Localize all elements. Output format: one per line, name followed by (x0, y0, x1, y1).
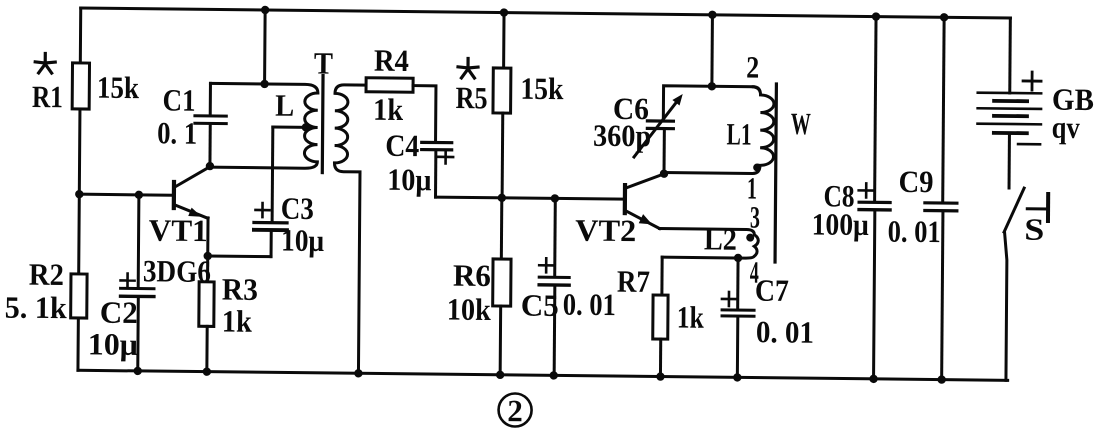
capacitor C8 (859, 202, 890, 210)
svg-text:5. 1k: 5. 1k (5, 290, 68, 326)
inductor transformer T secondary (333, 85, 366, 374)
wire switch bottom lead (1003, 232, 1007, 380)
wire bottom ground rail (78, 370, 1008, 380)
wire C6 bottom stub (663, 130, 666, 174)
node junction C8 / top rail (872, 12, 880, 20)
svg-text:VT2: VT2 (575, 213, 636, 249)
svg-text:360p: 360p (593, 118, 651, 154)
svg-text:C9: C9 (898, 164, 933, 199)
node junction R5 / top rail (500, 8, 508, 16)
svg-text:R1: R1 (32, 79, 63, 114)
node junction L2 bottom / C7 (734, 254, 742, 262)
svg-text:1k: 1k (222, 304, 253, 339)
svg-text:1k: 1k (677, 300, 705, 335)
node junction C9 / top rail (940, 13, 948, 21)
node junction C2 / ground rail (134, 367, 142, 375)
node junction R3 / ground rail (203, 367, 211, 375)
wire top supply rail (81, 8, 1011, 18)
resistor R6 (492, 198, 511, 375)
wire C7 bottom stub (736, 318, 739, 378)
svg-text:L2: L2 (704, 221, 737, 256)
svg-text:15k: 15k (97, 70, 140, 105)
wire C5 bottom stub (553, 287, 557, 376)
transistor VT2 (625, 173, 664, 228)
svg-text:10μ: 10μ (281, 223, 325, 258)
node junction left wire / base wire (75, 190, 83, 198)
star mark R5 (458, 58, 478, 78)
plus sign C4 (438, 150, 453, 163)
node junction VT2 collector / C6 / L1 (660, 169, 668, 177)
svg-text:0. 1: 0. 1 (157, 115, 197, 150)
wire tap down to C3 (271, 127, 275, 221)
svg-text:1k: 1k (373, 92, 404, 127)
svg-text:T: T (314, 45, 334, 80)
svg-text:R5: R5 (455, 80, 487, 115)
svg-text:0. 01: 0. 01 (888, 214, 941, 250)
node junction drop / C1-L wire (260, 80, 268, 88)
svg-text:VT1: VT1 (149, 213, 208, 249)
wire top rail drop to C1/L node (263, 10, 267, 84)
minus dash GB (1018, 143, 1040, 146)
svg-text:2: 2 (507, 393, 523, 428)
switch S blade (1004, 188, 1024, 232)
plus sign C2 (120, 273, 134, 287)
svg-text:S: S (1024, 212, 1044, 247)
battery GB (977, 93, 1041, 134)
node junction L1 top wire (708, 82, 716, 90)
svg-text:C2: C2 (100, 295, 138, 330)
node junction top rail / drop (261, 6, 269, 14)
node junction C8 / ground rail (869, 375, 877, 383)
wire emitter node to C3 bottom (208, 254, 271, 258)
capacitor C6 (variable) (647, 121, 673, 129)
node junction C5 / middle wire (551, 194, 559, 202)
node polarity dot L1 pin1 (753, 163, 761, 171)
svg-text:R6: R6 (453, 258, 491, 293)
capacitor C7 (722, 310, 754, 316)
figure number 2 circled (498, 393, 531, 428)
plus sign C7 (722, 292, 736, 306)
plus sign GB (1023, 72, 1041, 90)
wire C5 top stub (553, 198, 557, 275)
capacitor C3 (254, 222, 287, 230)
svg-text:C7: C7 (755, 273, 789, 308)
resistor R4 (366, 78, 413, 93)
svg-text:0. 01: 0. 01 (563, 287, 616, 323)
plus sign C5 (539, 258, 554, 272)
star mark R1 (35, 53, 55, 73)
wire C7 top stub (736, 258, 739, 309)
node junction C9 / ground rail (937, 375, 945, 383)
node junction R5 / middle wire (498, 194, 506, 202)
svg-text:0. 01: 0. 01 (756, 314, 814, 350)
svg-text:R3: R3 (222, 272, 258, 307)
wire C9 top stub (943, 17, 944, 201)
wire left vertical branch (R1/R2) (78, 8, 81, 370)
svg-text:qv: qv (1052, 110, 1081, 145)
svg-text:C5: C5 (521, 288, 559, 323)
capacitor C1 (195, 116, 226, 124)
wire battery bottom lead (1008, 133, 1011, 188)
wire C3 bottom stub (270, 232, 273, 257)
svg-text:C1: C1 (162, 82, 195, 117)
svg-text:R7: R7 (617, 264, 650, 299)
wire C2 top stub (137, 195, 141, 287)
resistor R3 (198, 256, 214, 372)
svg-text:10μ: 10μ (88, 326, 139, 362)
node junction emitter / R3 / C3 (204, 252, 212, 260)
svg-text:C4: C4 (385, 128, 419, 163)
node junction T secondary / ground rail (354, 369, 362, 377)
plus sign C8 (859, 183, 874, 197)
inductor L (transformer T primary) (210, 83, 318, 168)
wire C1 top stub (209, 83, 212, 114)
transformer T core (321, 76, 325, 173)
wire C9 bottom stub (942, 213, 943, 379)
svg-text:2: 2 (746, 50, 759, 85)
svg-text:10k: 10k (447, 292, 492, 327)
svg-text:L: L (275, 88, 294, 123)
node junction C5 / ground rail (550, 371, 558, 379)
svg-text:R2: R2 (29, 257, 64, 292)
resistor R5 (492, 12, 511, 197)
node junction C1 / collector / L bottom (206, 162, 214, 170)
wire L2 bottom corner to R7 (660, 257, 663, 295)
svg-text:15k: 15k (520, 71, 564, 106)
wire VT1 emitter vertical (206, 218, 209, 256)
transistor VT1 (174, 166, 210, 218)
svg-text:W: W (791, 106, 811, 141)
capacitor C4 (422, 142, 452, 150)
node junction C7 / ground rail (733, 373, 741, 381)
capacitor C9 (925, 203, 957, 211)
wire C2 bottom stub (136, 298, 140, 371)
node junction R7 / ground rail (656, 372, 664, 380)
wire top rail drop to L1 (710, 15, 714, 87)
resistor R7 (652, 295, 668, 377)
wire R4 to C4 corner (413, 86, 436, 141)
node junction R6 / ground rail (496, 371, 504, 379)
capacitor C5 (539, 277, 569, 285)
node junction top rail / L1 drop (708, 11, 716, 19)
wire battery top lead (1008, 18, 1012, 93)
svg-text:R4: R4 (374, 43, 409, 78)
resistor R1 (72, 63, 89, 109)
wire C1 bottom stub (208, 125, 211, 166)
node polarity dot L2 pin3 (746, 234, 754, 242)
switch S contact tick (1027, 194, 1048, 221)
plus sign C3 (255, 203, 269, 217)
wire middle bias wire (436, 197, 624, 199)
inductor L1 (664, 86, 774, 174)
wire VT1 base wire (79, 193, 172, 197)
wire C8 top stub (875, 17, 876, 201)
inductor L2 (659, 229, 758, 259)
svg-text:L1: L1 (726, 116, 751, 151)
svg-text:10μ: 10μ (387, 162, 432, 197)
resistor R2 (71, 274, 87, 318)
capacitor C2 (121, 288, 154, 296)
arrow C6 variable (634, 93, 683, 157)
svg-text:3: 3 (750, 200, 760, 235)
transformer W core (775, 84, 776, 262)
node junction base wire / C2 (135, 191, 143, 199)
wire C4 bottom stub (434, 151, 437, 197)
wire C8 bottom stub (874, 211, 875, 379)
wire L tap to C3 (273, 125, 306, 128)
wire C6 top corner (663, 86, 753, 121)
svg-text:100μ: 100μ (812, 206, 870, 242)
node junction L tap (302, 123, 310, 131)
svg-text:C3: C3 (281, 191, 314, 226)
